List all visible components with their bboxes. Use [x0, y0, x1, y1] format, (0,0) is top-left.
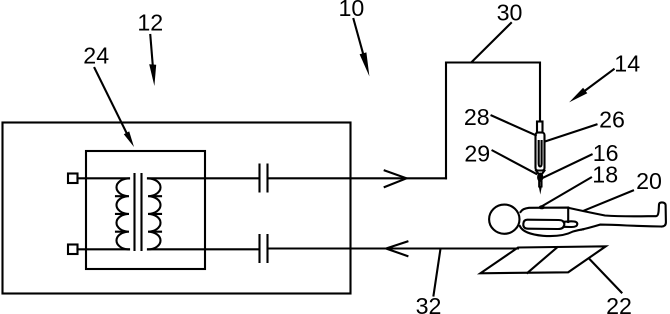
svg-text:18: 18: [592, 161, 618, 187]
svg-text:30: 30: [497, 0, 523, 26]
svg-text:12: 12: [137, 10, 163, 36]
svg-text:10: 10: [339, 0, 365, 21]
svg-text:32: 32: [416, 293, 442, 314]
svg-text:29: 29: [464, 140, 490, 166]
svg-text:22: 22: [606, 293, 632, 314]
svg-text:26: 26: [599, 107, 625, 133]
svg-text:24: 24: [83, 43, 109, 69]
svg-text:28: 28: [464, 104, 490, 130]
svg-text:20: 20: [636, 168, 662, 194]
svg-text:14: 14: [614, 50, 640, 76]
